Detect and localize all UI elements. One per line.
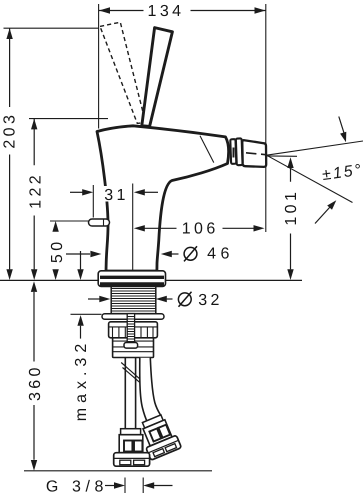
svg-text:31: 31: [104, 187, 129, 204]
dimension 106: [144, 227, 254, 229]
dimension Ø46: [66, 253, 90, 255]
spout joint bar 1: [230, 139, 236, 164]
dashed lever handle (second position): [100, 22, 146, 123]
vertical supply hose: [125, 358, 135, 429]
wire: extension line left of 134: [98, 4, 100, 129]
svg-text:50: 50: [49, 238, 66, 263]
base plinth: [98, 271, 165, 287]
dimension 360: [33, 292, 35, 460]
body crease line: [200, 136, 214, 163]
svg-text:46: 46: [207, 245, 234, 262]
leader arrow lower (swivel): [315, 207, 330, 224]
dimension 31: [70, 191, 83, 193]
svg-text:203: 203: [2, 112, 19, 149]
wire: extension line for 31 left: [92, 185, 94, 218]
angled hose connector: [136, 412, 181, 460]
dimension max. 32: [80, 251, 82, 269]
swivel range line upper: [267, 141, 363, 155]
spout joint bar 2: [236, 138, 243, 165]
horizontal extension for 101: [266, 155, 297, 157]
wire: horizontal extension for 122: [29, 118, 108, 120]
threaded rod with foot: [127, 314, 134, 343]
aerator axis dashes: [246, 153, 266, 155]
manifold block: [113, 338, 154, 358]
svg-text:max.32: max.32: [73, 339, 90, 421]
dimension 203: [9, 28, 11, 269]
faucet body: [97, 126, 229, 271]
dimension 50: [52, 221, 58, 232]
pull rod diagonal: [121, 363, 152, 393]
svg-text:101: 101: [283, 189, 300, 226]
angled supply hose: [140, 358, 161, 423]
dimension 134: [99, 10, 266, 12]
dimension 122: [33, 119, 35, 270]
wire: extension line right of 134/106: [265, 4, 267, 232]
wire: extension at washer top for max.32: [71, 313, 102, 315]
svg-text:360: 360: [27, 364, 44, 401]
node: centerline extension: [132, 184, 134, 274]
vertical hose connector: [114, 429, 150, 467]
mounting nut: [109, 322, 158, 338]
dimension 101: [290, 168, 292, 269]
leader arrow upper (swivel): [339, 117, 344, 134]
solid lever handle: [142, 28, 173, 127]
threaded shank: [111, 287, 156, 314]
wire: bottom reference line: [24, 470, 212, 472]
joint screw marks: [233, 148, 235, 158]
svg-text:G 3/8: G 3/8: [46, 478, 108, 495]
svg-text:134: 134: [148, 3, 185, 20]
svg-text:32: 32: [198, 292, 223, 309]
side knob on body: [89, 219, 110, 226]
swivel range line lower: [267, 155, 353, 202]
svg-text:106: 106: [182, 221, 219, 238]
aerator housing: [242, 140, 266, 167]
washer plate: [102, 314, 164, 319]
svg-text:122: 122: [27, 172, 44, 209]
wire: horizontal extension for 50: [50, 220, 94, 222]
deck reference line: [0, 279, 302, 281]
wire: horizontal extension for 203 at top: [4, 27, 99, 29]
dimension Ø32: [88, 298, 100, 300]
